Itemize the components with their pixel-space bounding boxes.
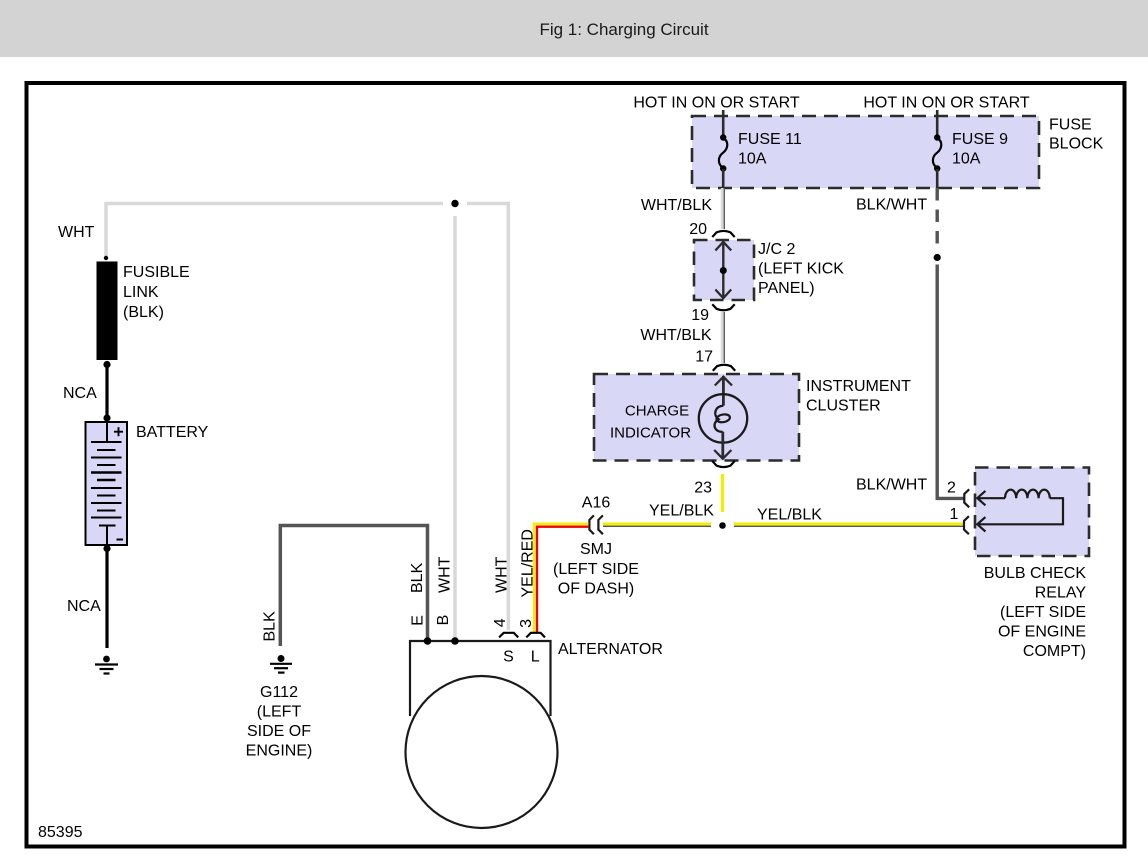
svg-text:(LEFT: (LEFT [257,704,302,721]
label FUSE BLOCK [1049,117,1104,153]
label FUSE 9 10A [952,131,1008,168]
svg-text:(LEFT KICK: (LEFT KICK [758,260,844,277]
wire BLK/WHT solid to relay pin 2 [937,265,963,499]
svg-text:FUSE: FUSE [1049,117,1092,134]
fuse F11 [719,134,727,188]
svg-text:3: 3 [518,619,535,628]
svg-text:BLOCK: BLOCK [1049,136,1104,153]
svg-text:NCA: NCA [67,598,101,615]
wire WHT/BLK J/C2 to cluster [722,312,724,363]
svg-text:PANEL): PANEL) [758,280,815,297]
svg-text:G112: G112 [260,684,298,701]
label BULB CHECK RELAY (LEFT SIDE OF ENGINE COMPT) [984,565,1087,660]
svg-text:HOT IN ON OR START: HOT IN ON OR START [633,95,799,112]
svg-text:CHARGE: CHARGE [625,403,689,420]
svg-text:10A: 10A [952,151,981,168]
label G112 (LEFT SIDE OF ENGINE) [246,684,313,760]
node dot below fusible link [103,361,110,368]
connector A16 double arcs [589,515,603,534]
svg-text:COMPT): COMPT) [1023,643,1086,660]
svg-text:17: 17 [695,349,713,366]
connector pin 20 [712,231,734,237]
label FUSE 11 10A [738,131,802,168]
svg-text:4: 4 [492,618,509,627]
node dot at battery bottom [103,545,110,552]
relay coil K1 [977,490,1063,532]
svg-text:SMJ: SMJ [580,541,612,558]
svg-text:FUSIBLE: FUSIBLE [123,264,190,281]
svg-text:BLK/WHT: BLK/WHT [856,477,927,494]
junction node on WHT wire [451,200,458,207]
node dot at battery top [103,414,110,421]
connector relay pin 1 [964,516,969,534]
node dot at fusible link top [104,256,108,260]
svg-text:WHT/BLK: WHT/BLK [641,197,712,214]
svg-text:YEL/BLK: YEL/BLK [649,503,714,520]
svg-text:S: S [503,649,514,666]
wire WHT branch down to alternator B [453,216,457,639]
svg-text:B: B [435,615,452,626]
fuse block box [692,116,1039,188]
svg-text:FUSE 11: FUSE 11 [738,131,802,148]
connector relay pin 2 [964,489,969,507]
battery [86,422,128,545]
wire YEL/BLK cluster to junction [721,474,724,512]
svg-text:LINK: LINK [123,284,159,301]
wire YEL/BLK junction to relay [734,524,963,526]
svg-text:YEL/RED: YEL/RED [520,529,537,597]
svg-text:19: 19 [691,307,709,324]
svg-text:23: 23 [694,480,712,497]
junction node on BLK/WHT [934,254,941,261]
svg-text:YEL/BLK: YEL/BLK [757,507,822,524]
svg-text:L: L [531,649,540,666]
title banner [0,0,1148,57]
svg-text:RELAY: RELAY [1035,585,1087,602]
junction node A [719,522,726,529]
charge indicator lamp [699,376,747,459]
label CHARGE INDICATOR [610,403,691,442]
fuse F9 [933,134,941,188]
wire YEL/BLK junction left segment [603,524,711,526]
svg-text:WHT: WHT [437,556,454,593]
svg-text:WHT: WHT [58,224,95,241]
svg-text:(LEFT SIDE: (LEFT SIDE [1000,604,1086,621]
wire BLK G112 to alternator E [280,526,427,647]
svg-text:ENGINE): ENGINE) [246,743,313,760]
ground G112 [270,655,292,673]
svg-text:85395: 85395 [38,824,83,841]
label FUSIBLE LINK (BLK) [123,264,190,321]
svg-text:(LEFT SIDE: (LEFT SIDE [553,561,639,578]
svg-text:E: E [409,615,426,626]
svg-text:Fig 1: Charging Circuit: Fig 1: Charging Circuit [539,20,708,39]
svg-text:SIDE OF: SIDE OF [247,723,311,740]
svg-text:BATTERY: BATTERY [136,424,209,441]
svg-text:BLK: BLK [409,562,426,593]
svg-text:10A: 10A [738,151,767,168]
svg-text:HOT IN ON OR START: HOT IN ON OR START [863,95,1029,112]
svg-text:INDICATOR: INDICATOR [610,425,691,442]
label J/C 2 (LEFT KICK PANEL) [758,241,844,297]
wire NCA fusible link to battery [105,364,108,418]
bulb check relay box [975,468,1089,557]
node dot terminal E [424,637,432,645]
J/C 2 internal arrows [715,242,731,298]
svg-text:20: 20 [689,221,707,238]
connector pin 23 [712,461,734,467]
fusible link (BLK) [97,262,118,361]
node dot terminal B [451,637,459,645]
wire into fuse 11 [722,110,725,137]
ground (battery) [95,656,118,674]
svg-text:ALTERNATOR: ALTERNATOR [558,641,663,658]
svg-text:(BLK): (BLK) [123,304,164,321]
svg-text:BLK: BLK [262,611,279,642]
connector pin 3 (L) [526,633,545,638]
wire into fuse 9 [936,110,939,137]
svg-text:A16: A16 [582,495,611,512]
svg-text:INSTRUMENT: INSTRUMENT [806,378,911,395]
connector pin 4 (S) [499,633,518,638]
wire WHT horizontal (battery feed) [106,204,508,631]
connector pin 17 [713,365,735,371]
svg-text:BLK/WHT: BLK/WHT [856,197,927,214]
svg-text:J/C 2: J/C 2 [758,241,795,258]
wire BLK/WHT dashed from fuse 9 [936,188,939,251]
svg-text:1: 1 [950,506,959,523]
svg-text:CLUSTER: CLUSTER [806,398,881,415]
label INSTRUMENT CLUSTER [806,378,911,415]
svg-text:2: 2 [947,480,956,497]
svg-text:BULB CHECK: BULB CHECK [984,565,1087,582]
wire WHT/BLK fuse11 to J/C2 [722,188,724,229]
connector pin 19 [712,304,734,310]
label SMJ (LEFT SIDE OF DASH) [553,541,639,598]
svg-text:OF ENGINE: OF ENGINE [998,624,1086,641]
svg-text:NCA: NCA [63,385,97,402]
svg-text:FUSE 9: FUSE 9 [952,131,1008,148]
svg-text:WHT: WHT [494,556,511,593]
instrument cluster box [594,374,799,461]
svg-text:WHT/BLK: WHT/BLK [640,327,711,344]
wire NCA battery to ground [105,549,108,648]
alternator circle [406,676,558,828]
svg-text:OF DASH): OF DASH) [558,581,634,598]
alternator box [410,641,551,716]
wire YEL/RED alternator L to A16 [534,524,588,632]
junction connector J/C 2 box [694,240,754,300]
